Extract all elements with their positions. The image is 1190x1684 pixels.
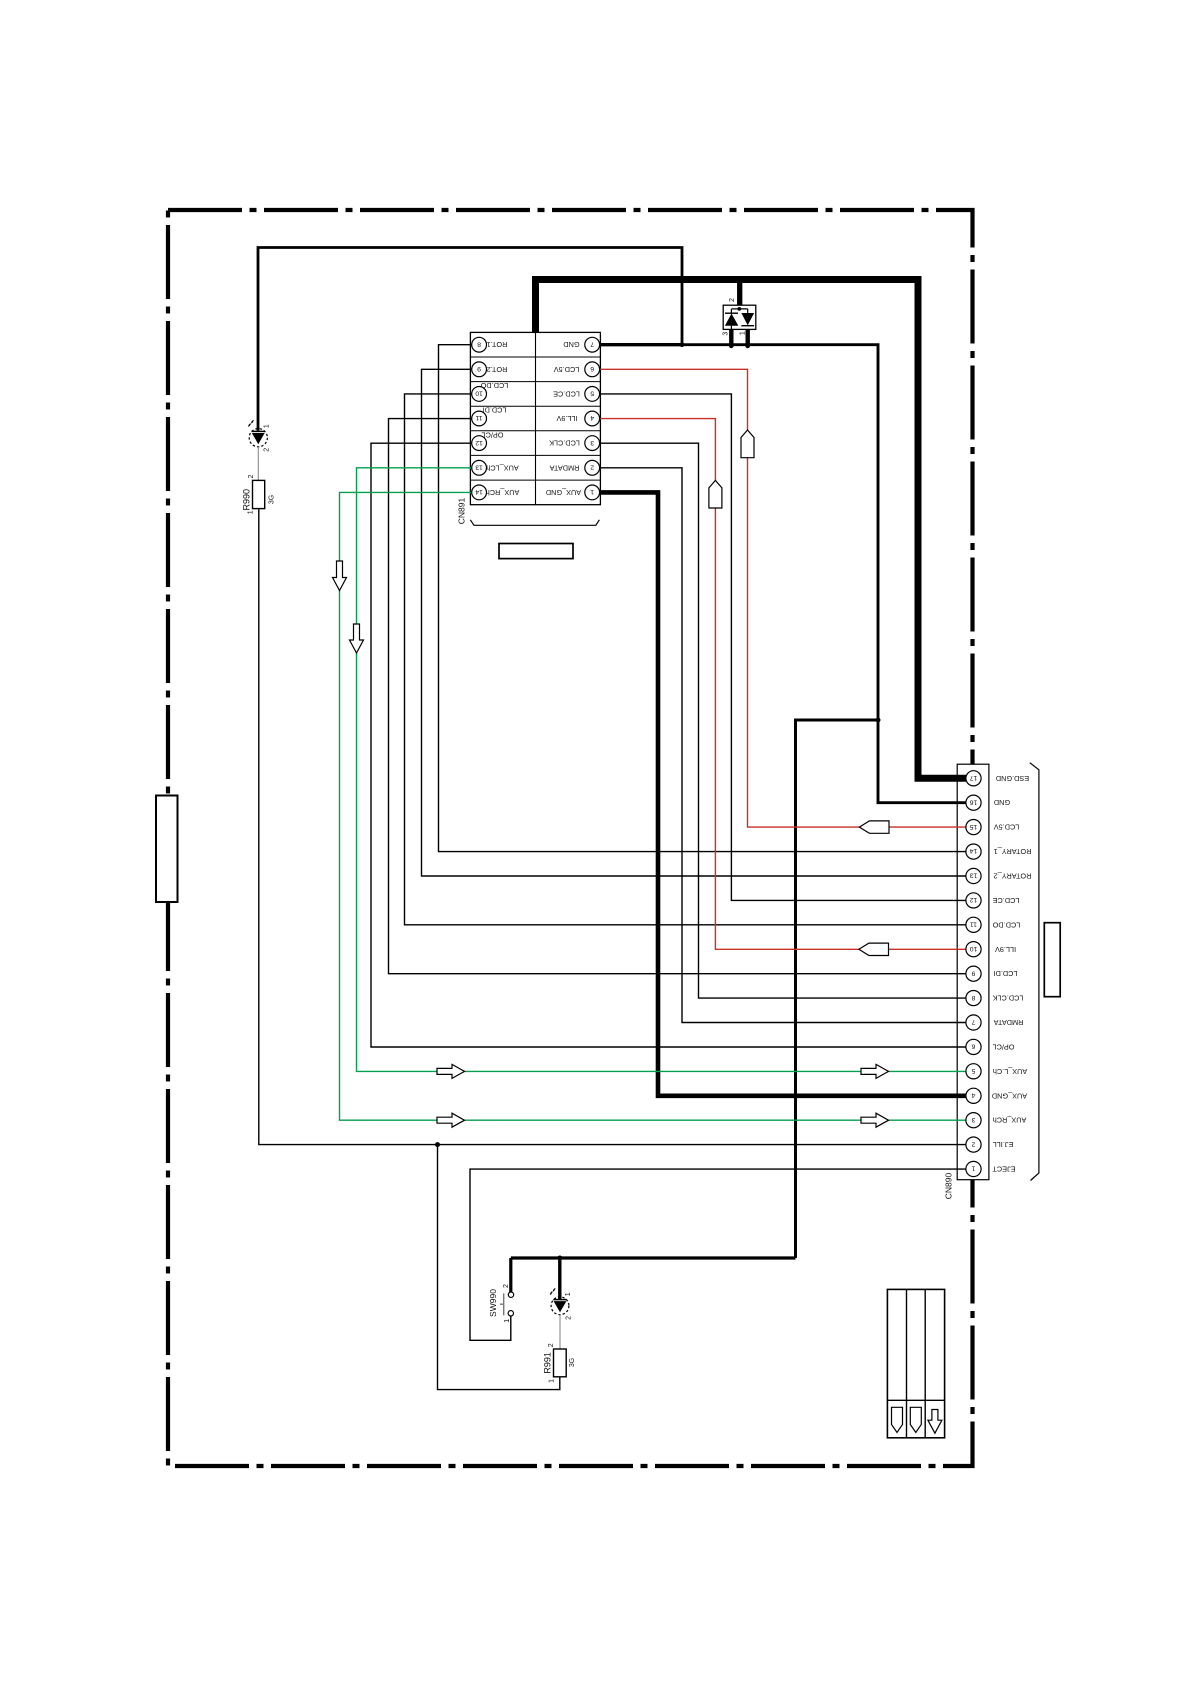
CN891 pin 1 bbox=[585, 485, 600, 500]
CN890 pin 1 bbox=[966, 1161, 981, 1176]
CN890 pin 16 bbox=[966, 795, 981, 810]
LED light arrows bbox=[550, 1292, 552, 1294]
wire LCD.5V (CN891-6 to CN890-15, red) bbox=[600, 369, 966, 827]
svg-text:3: 3 bbox=[590, 439, 594, 446]
svg-text:8: 8 bbox=[971, 994, 975, 1001]
svg-text:LCD.CE: LCD.CE bbox=[992, 896, 1019, 905]
wire AUX_LCh (CN891-13 to CN890-5, green) bbox=[357, 468, 967, 1072]
CN890 pin 2 bbox=[966, 1137, 981, 1152]
CN891 pin 3 bbox=[585, 436, 600, 451]
wire GND (CN891 pin7 to CN890 pin16) bbox=[600, 343, 682, 346]
svg-text:3: 3 bbox=[723, 332, 730, 336]
CN890 pin 12 bbox=[966, 893, 981, 908]
arrow on ILL.9V horizontal bbox=[859, 943, 889, 955]
svg-text:ESD.GND: ESD.GND bbox=[996, 774, 1029, 783]
LED light arrows bbox=[249, 424, 251, 426]
wire ILL.9V (CN891-4 to CN890-10, red) bbox=[600, 419, 966, 950]
svg-text:RMDATA: RMDATA bbox=[550, 463, 580, 472]
LED (eject illumination, top-left) bbox=[248, 420, 271, 451]
svg-text:9: 9 bbox=[971, 969, 975, 976]
CN891 pin 8 bbox=[472, 337, 487, 352]
svg-text:R990: R990 bbox=[242, 489, 252, 511]
svg-text:AUX_L.Ch: AUX_L.Ch bbox=[993, 1067, 1027, 1076]
svg-text:4: 4 bbox=[971, 1091, 975, 1098]
arrow on AUX_RCh horizontal (left) bbox=[437, 1113, 465, 1127]
CN891 pin 13 bbox=[472, 460, 487, 475]
svg-text:ILL.9V: ILL.9V bbox=[995, 945, 1016, 954]
wire OP/CL (CN891-12 to CN890-6) bbox=[371, 443, 966, 1047]
svg-text:3G: 3G bbox=[569, 1358, 576, 1367]
svg-text:EJ.ILL: EJ.ILL bbox=[993, 1140, 1014, 1149]
CN891 pin 5 bbox=[585, 387, 600, 402]
svg-text:ROT.1: ROT.1 bbox=[487, 340, 508, 349]
connector CN890 body bbox=[957, 764, 989, 1179]
board-exit box (to other board) bbox=[887, 1289, 944, 1437]
svg-text:2: 2 bbox=[971, 1140, 975, 1147]
svg-text:14: 14 bbox=[970, 847, 978, 854]
arrow on ILL.9V vertical bbox=[709, 480, 722, 508]
svg-text:ROTARY_2: ROTARY_2 bbox=[994, 872, 1032, 881]
wire EJ.ILL branch to R991 bbox=[438, 1145, 560, 1390]
arrow on AUX_LCh horizontal (left) bbox=[437, 1064, 465, 1078]
svg-text:2: 2 bbox=[590, 463, 594, 470]
CN890 pin 15 bbox=[966, 820, 981, 835]
svg-text:ROT.2: ROT.2 bbox=[487, 365, 508, 374]
svg-text:5: 5 bbox=[590, 390, 594, 397]
switch SW990 (eject) bbox=[488, 1284, 514, 1323]
resistor R990 bbox=[242, 474, 276, 514]
junction GND tap bbox=[876, 718, 881, 723]
junction on GND line bbox=[680, 342, 685, 347]
CN890 pin 14 bbox=[966, 844, 981, 859]
svg-text:12: 12 bbox=[970, 896, 978, 903]
exit arrow 1 bbox=[892, 1407, 903, 1432]
svg-text:AUX_LCh: AUX_LCh bbox=[486, 463, 518, 472]
CN890 bracket bbox=[1030, 763, 1039, 1181]
svg-text:LCD.DI: LCD.DI bbox=[994, 969, 1018, 978]
svg-text:AUX_GND: AUX_GND bbox=[992, 1091, 1027, 1100]
CN890 pin 17 bbox=[966, 771, 981, 786]
CN890 pin 11 bbox=[966, 917, 981, 932]
CN891 pin 14 bbox=[472, 485, 487, 500]
CN891 pin 7 bbox=[585, 337, 600, 352]
svg-text:CN890: CN890 bbox=[943, 1173, 953, 1200]
svg-text:1: 1 bbox=[248, 510, 255, 514]
svg-text:15: 15 bbox=[970, 823, 978, 830]
svg-text:GND: GND bbox=[994, 798, 1010, 807]
svg-text:13: 13 bbox=[475, 463, 483, 470]
svg-text:2: 2 bbox=[566, 1316, 573, 1320]
CN891 pin 12 bbox=[472, 436, 487, 451]
svg-text:ILL.9V: ILL.9V bbox=[556, 414, 577, 423]
svg-text:OP/CL: OP/CL bbox=[993, 1042, 1015, 1051]
svg-text:2: 2 bbox=[248, 474, 255, 478]
diode D-right (anode up) bbox=[741, 313, 754, 325]
svg-text:CN891: CN891 bbox=[456, 498, 466, 525]
CN890 pin 6 bbox=[966, 1039, 981, 1054]
svg-text:16: 16 bbox=[970, 798, 978, 805]
arrow on AUX_LCh horizontal (right) bbox=[861, 1064, 889, 1078]
arrow on AUX_LCh vertical bbox=[350, 624, 364, 653]
board boundary frame (dash-dot) bbox=[168, 210, 973, 1466]
svg-text:13: 13 bbox=[970, 872, 978, 879]
svg-text:5: 5 bbox=[971, 1067, 975, 1074]
CN891 pin 6 bbox=[585, 362, 600, 377]
svg-text:4: 4 bbox=[590, 414, 594, 421]
svg-text:LCD.CLK: LCD.CLK bbox=[992, 994, 1023, 1003]
svg-text:1: 1 bbox=[565, 1292, 572, 1296]
wire GND bottom rail to SW990 and LED bbox=[511, 1256, 796, 1259]
CN891 pin 4 bbox=[585, 411, 600, 426]
diode D-left (anode down) bbox=[725, 314, 738, 326]
diode pack (dual diode) body bbox=[723, 283, 756, 348]
svg-text:R991: R991 bbox=[542, 1352, 552, 1374]
CN890 pin 5 bbox=[966, 1064, 981, 1079]
svg-text:2: 2 bbox=[548, 1343, 555, 1347]
svg-text:10: 10 bbox=[970, 945, 978, 952]
svg-text:LCD.5V: LCD.5V bbox=[554, 365, 580, 374]
empty annotation box on left frame edge bbox=[156, 796, 178, 903]
svg-text:3G: 3G bbox=[268, 495, 275, 504]
svg-text:1: 1 bbox=[549, 1379, 556, 1383]
arrow on AUX_RCh vertical bbox=[333, 561, 347, 591]
CN891 pin 10 bbox=[472, 387, 487, 402]
connector CN891 body bbox=[470, 332, 600, 504]
svg-text:1: 1 bbox=[740, 331, 747, 335]
CN890 pin 8 bbox=[966, 991, 981, 1006]
wire LCD.CE (CN891-5 to CN890-12) bbox=[600, 394, 966, 901]
svg-text:SW990: SW990 bbox=[488, 1289, 498, 1317]
wire AUX_GND (CN891 pin1 to CN890 pin4) bbox=[600, 492, 966, 1095]
resistor R991 bbox=[542, 1343, 576, 1383]
junction at LED stub bbox=[557, 1256, 562, 1261]
wire ROT.2 (CN891-9 to CN890-13) bbox=[422, 369, 967, 876]
wire AUX_RCh (CN891-14 to CN890-3, green) bbox=[340, 492, 967, 1120]
CN890 pin 3 bbox=[966, 1113, 981, 1128]
svg-text:11: 11 bbox=[475, 414, 482, 421]
svg-text:11: 11 bbox=[970, 921, 977, 928]
empty annotation box under CN891 bbox=[499, 544, 573, 559]
svg-text:6: 6 bbox=[590, 365, 594, 372]
svg-text:17: 17 bbox=[970, 774, 978, 781]
svg-text:GND: GND bbox=[563, 340, 579, 349]
CN891 pin 11 bbox=[472, 411, 487, 426]
svg-text:AUX_RCh: AUX_RCh bbox=[486, 488, 520, 497]
junction EJ.ILL branch bbox=[435, 1142, 440, 1147]
wire RMDATA (CN891-2 to CN890-7) bbox=[600, 468, 966, 1023]
diode pin stubs bbox=[729, 329, 733, 345]
svg-text:6: 6 bbox=[971, 1043, 975, 1050]
svg-text:9: 9 bbox=[477, 365, 481, 372]
wire LCD.DO (CN891-10 to CN890-11) bbox=[405, 394, 967, 925]
svg-text:3: 3 bbox=[971, 1116, 975, 1123]
svg-text:2: 2 bbox=[503, 1284, 510, 1288]
exit arrow 3 bbox=[928, 1410, 942, 1434]
CN890 pin 10 bbox=[966, 942, 981, 957]
wire ROT.1 (CN891-8 to CN890-14) bbox=[439, 345, 967, 852]
svg-text:7: 7 bbox=[971, 1018, 975, 1025]
wire LCD.DI (CN891-11 to CN890-9) bbox=[389, 419, 967, 974]
svg-text:EJECT: EJECT bbox=[992, 1165, 1016, 1174]
svg-text:AUX_RCh: AUX_RCh bbox=[993, 1116, 1027, 1125]
connector CN890 pins and labels bbox=[943, 763, 1060, 1200]
CN891 pin 9 bbox=[472, 362, 487, 377]
svg-text:LCD.5V: LCD.5V bbox=[994, 823, 1020, 832]
svg-text:1: 1 bbox=[504, 1319, 511, 1323]
svg-text:1: 1 bbox=[263, 424, 270, 428]
wire LED D990 cathode to R990 bbox=[257, 447, 259, 481]
LED (bottom, eject button) bbox=[550, 1288, 573, 1319]
svg-text:8: 8 bbox=[477, 340, 481, 347]
wire GND tap to switch/LED return bbox=[796, 720, 879, 1258]
svg-text:LCD.DO: LCD.DO bbox=[480, 381, 508, 390]
svg-text:LCD.DI: LCD.DI bbox=[483, 405, 507, 414]
svg-text:LCD.DO: LCD.DO bbox=[992, 920, 1020, 929]
svg-text:14: 14 bbox=[475, 488, 483, 495]
empty annotation box right of CN890 bbox=[1044, 923, 1060, 997]
CN890 pin 4 bbox=[966, 1088, 981, 1103]
arrow on LCD.5V vertical bbox=[741, 430, 754, 458]
svg-text:AUX_GND: AUX_GND bbox=[546, 488, 581, 497]
arrow on LCD.5V horizontal bbox=[859, 821, 889, 833]
CN891 bracket bbox=[470, 520, 599, 526]
wire EJECT (CN890 pin1 to SW990) bbox=[470, 1169, 966, 1340]
wire LED D990 pin1 to GND junction bbox=[258, 248, 682, 431]
CN890 pin 7 bbox=[966, 1015, 981, 1030]
connector CN891 pins and labels bbox=[456, 337, 599, 558]
CN890 pin 13 bbox=[966, 868, 981, 883]
CN890 pin 9 bbox=[966, 966, 981, 981]
wire EJ.ILL (R990 to CN890 pin2) bbox=[259, 509, 966, 1145]
wire LED to R991 bbox=[559, 1315, 561, 1349]
wire ESD.GND bus (CN891 top to CN890 pin17) bbox=[536, 280, 967, 779]
svg-text:2: 2 bbox=[729, 298, 736, 302]
svg-text:7: 7 bbox=[590, 340, 594, 347]
svg-text:1: 1 bbox=[971, 1165, 975, 1172]
exit arrow 2 bbox=[910, 1407, 921, 1432]
svg-text:OP/CL: OP/CL bbox=[482, 431, 504, 440]
svg-text:RMDATA: RMDATA bbox=[994, 1018, 1024, 1027]
arrow on AUX_RCh horizontal (right) bbox=[861, 1113, 889, 1127]
svg-text:2: 2 bbox=[264, 448, 271, 452]
svg-text:ROTARY_1: ROTARY_1 bbox=[994, 847, 1032, 856]
svg-text:LCD.CE: LCD.CE bbox=[553, 389, 580, 398]
wire LCD.CLK (CN891-3 to CN890-8) bbox=[600, 443, 966, 998]
svg-text:1: 1 bbox=[590, 488, 594, 495]
CN891 pin 2 bbox=[585, 460, 600, 475]
svg-text:LCD.CLK: LCD.CLK bbox=[549, 439, 580, 448]
